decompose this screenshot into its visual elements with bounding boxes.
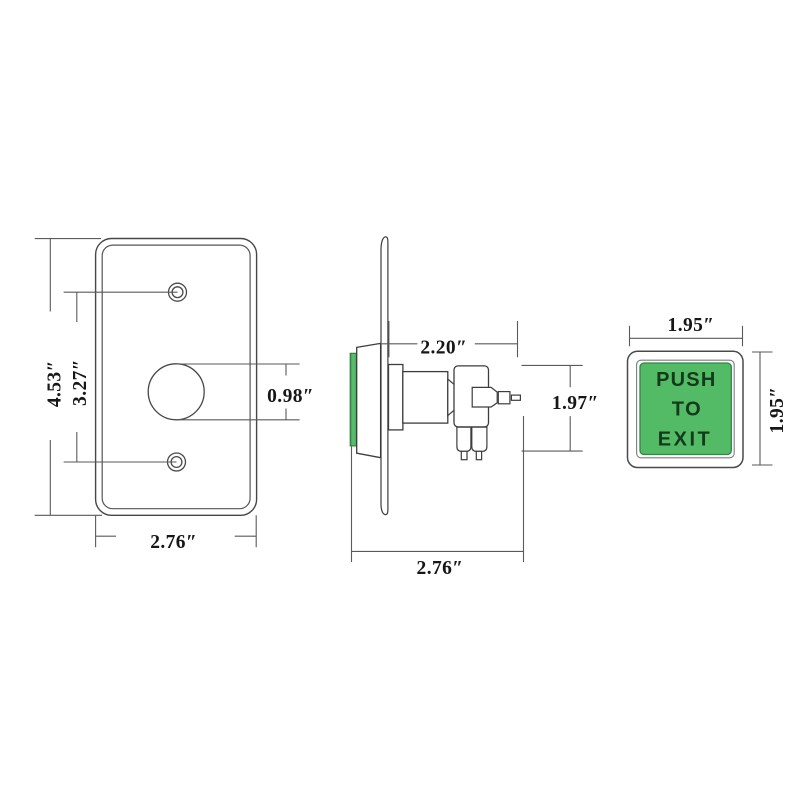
- svg-text:PUSH: PUSH: [656, 369, 716, 391]
- dimension 4.53 vertical line: [49, 239, 51, 516]
- exit button green face: [640, 363, 731, 455]
- leader line bottom screw: [64, 461, 177, 463]
- exit button outer bezel: [628, 351, 744, 467]
- faceplate front view outer outline: [96, 239, 257, 516]
- svg-text:TO: TO: [672, 399, 702, 421]
- svg-text:2.20″: 2.20″: [420, 337, 467, 358]
- dimension 1.97 bottom extension line: [522, 450, 583, 452]
- side view retaining ring: [389, 365, 403, 430]
- top screw hole: [169, 283, 187, 301]
- svg-text:3.27″: 3.27″: [70, 359, 91, 406]
- svg-text:0.98″: 0.98″: [267, 386, 314, 407]
- side view plunger tip: [511, 395, 520, 400]
- side view right terminal blade: [472, 427, 487, 451]
- svg-text:2.76″: 2.76″: [417, 558, 464, 579]
- dimension 2.76 left-view line stubs: [96, 535, 257, 537]
- side view left terminal pin: [461, 451, 467, 459]
- dimension 4.53 bottom tick: [35, 514, 102, 516]
- dimension 1.95 top ticks: [630, 326, 743, 347]
- dimension 0.98 vertical ticks: [285, 364, 287, 420]
- side view neck between body and switch: [448, 379, 455, 416]
- dimension 1.95 right line: [759, 352, 761, 465]
- svg-text:EXIT: EXIT: [658, 429, 712, 451]
- dimension 2.76 left-view extension lines: [96, 515, 257, 547]
- bottom screw hole: [168, 453, 186, 471]
- dimension 2.20 left tick: [388, 321, 390, 357]
- dimension 1.97 top extension line: [522, 364, 583, 366]
- side view button body: [403, 372, 448, 424]
- svg-text:1.95″: 1.95″: [668, 315, 715, 336]
- dimension 0.98 top extension line: [176, 363, 299, 365]
- side view microswitch block: [454, 366, 489, 427]
- side view plunger stage 2: [498, 392, 510, 404]
- dimension 2.76 side-view left extension line: [351, 447, 353, 563]
- side view faceplate slab: [381, 237, 388, 515]
- dimension 2.76 side-view line: [352, 550, 524, 552]
- svg-text:2.76″: 2.76″: [150, 532, 197, 553]
- side view right terminal pin: [476, 451, 481, 459]
- dimension 2.20 line stubs: [381, 343, 518, 345]
- dimension 1.95 right ticks: [752, 352, 773, 465]
- leader line top screw: [64, 291, 178, 293]
- dimension 3.27 vertical line: [76, 292, 78, 462]
- dimension 1.97 vertical line: [569, 365, 571, 451]
- exit button inner bezel ring: [637, 360, 735, 458]
- side view plunger stage 1: [472, 387, 497, 407]
- svg-text:4.53″: 4.53″: [45, 360, 66, 407]
- dimension 2.20 right tick: [517, 321, 519, 357]
- side view left terminal blade: [457, 427, 471, 451]
- dimension 1.95 top line: [630, 337, 743, 339]
- dimension 0.98 bottom extension line: [176, 419, 299, 421]
- side view button bezel trapezoid: [357, 343, 381, 457]
- dimension 4.53 top tick: [35, 238, 101, 240]
- svg-text:1.97″: 1.97″: [552, 393, 599, 414]
- dimension 2.76 side-view right extension line: [523, 416, 525, 562]
- svg-text:1.95″: 1.95″: [767, 387, 788, 434]
- faceplate front view inner outline: [102, 245, 250, 509]
- center button hole circle: [148, 364, 204, 420]
